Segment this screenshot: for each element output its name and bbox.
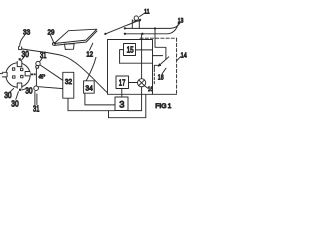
box 15 — [124, 44, 136, 56]
inner tick SW — [13, 76, 15, 78]
pad E — [25, 72, 30, 76]
crank pin dot — [139, 19, 141, 21]
pad N — [17, 61, 22, 66]
dashed box 14 bottom edge — [153, 93, 177, 95]
svg-text:13: 13 — [178, 17, 184, 24]
wire box17 to multiplier — [129, 82, 138, 84]
leader 33 — [20, 35, 25, 46]
solar panel 12 top face — [54, 29, 97, 43]
bus wire lower — [125, 25, 178, 34]
box 32 — [63, 72, 74, 98]
wire under box15 — [120, 62, 153, 64]
svg-text:30: 30 — [22, 50, 30, 59]
crank arm — [105, 20, 140, 34]
wire lower brush to box32 — [38, 87, 62, 89]
svg-text:1: 1 — [168, 103, 172, 110]
wire stub right of box — [153, 55, 163, 57]
leader — [40, 58, 43, 61]
leader — [21, 57, 24, 60]
motor bracket — [132, 20, 140, 29]
dashed box 14 right edge — [176, 38, 178, 94]
brush circle upper — [36, 61, 40, 65]
wire panel to box 34 — [89, 43, 93, 51]
panel thickness front edge — [54, 31, 97, 45]
leader — [16, 92, 19, 100]
panel support — [65, 44, 75, 50]
junction dot — [154, 27, 156, 29]
wire brush to box32 — [40, 65, 63, 80]
svg-text:12: 12 — [86, 49, 93, 58]
dashed stub — [153, 74, 155, 84]
panel pivot — [53, 43, 56, 46]
outer tick N — [19, 58, 21, 60]
dashed box 14 top edge — [140, 37, 177, 39]
svg-text:33: 33 — [23, 28, 30, 37]
pad S — [17, 83, 22, 88]
leader 11 — [140, 13, 145, 16]
arrow 18 head — [158, 63, 162, 67]
outer tick E — [31, 74, 33, 76]
wire multiplier down — [141, 87, 143, 111]
bus wire upper — [125, 23, 180, 29]
svg-text:34: 34 — [85, 83, 93, 92]
tick on brush wire — [34, 73, 36, 75]
svg-text:45°: 45° — [39, 75, 46, 81]
tip dot 13 — [178, 22, 180, 24]
svg-text:30: 30 — [11, 99, 19, 108]
multiplier 16 circle — [138, 79, 146, 87]
junction dot — [124, 33, 126, 35]
svg-text:31: 31 — [33, 104, 39, 113]
leader 16 — [144, 86, 148, 89]
box 34 — [84, 81, 95, 93]
junction dot — [124, 27, 126, 29]
inner tick NW — [12, 68, 14, 70]
bottom return wire — [109, 95, 146, 118]
wire bus2 down to multiplier — [141, 34, 143, 79]
leader — [10, 88, 13, 91]
leader 18 — [162, 68, 166, 73]
svg-text:14: 14 — [181, 53, 187, 60]
inner tick NE — [21, 68, 23, 70]
wire from bus1 down into box14 — [155, 29, 166, 60]
wire hook to controller box — [22, 49, 108, 93]
svg-text:FIG: FIG — [155, 103, 166, 110]
crank end dot — [104, 33, 106, 35]
inner tick SE — [21, 75, 23, 77]
svg-text:30: 30 — [25, 86, 33, 95]
wire box17 to box3 — [121, 89, 123, 98]
svg-text:11: 11 — [144, 9, 150, 16]
rotor circle — [6, 63, 30, 87]
multiplier X — [139, 80, 145, 86]
svg-text:16: 16 — [148, 86, 153, 93]
svg-text:18: 18 — [158, 75, 164, 82]
box 3 — [115, 97, 128, 111]
hook at leader end — [19, 47, 22, 50]
wire corner below arrow — [154, 65, 160, 72]
outer tick W — [0, 73, 2, 75]
brush vertical wire — [35, 68, 37, 86]
outer tick S — [19, 89, 21, 91]
leader pair — [35, 92, 37, 105]
svg-text:15: 15 — [127, 45, 134, 54]
svg-text:32: 32 — [65, 77, 72, 86]
leader 29 — [51, 35, 54, 42]
svg-text:17: 17 — [119, 78, 126, 87]
junction dot — [141, 33, 143, 35]
motor 11 circle — [134, 16, 138, 20]
box 17 — [116, 76, 129, 89]
brush circle lower — [34, 86, 39, 91]
leader — [22, 89, 25, 90]
wire under box3 — [128, 110, 142, 112]
wire box34 to box3 — [85, 93, 115, 105]
controller solid box — [108, 40, 153, 95]
arrow 18 shaft — [160, 57, 169, 65]
wire box15 left down — [120, 50, 124, 64]
wire box32 bottom run — [68, 98, 115, 111]
brush circle small — [36, 65, 39, 68]
pad W — [2, 72, 7, 77]
wire box15 right — [136, 49, 153, 51]
leader 14 — [177, 57, 181, 61]
svg-text:3: 3 — [119, 99, 124, 110]
